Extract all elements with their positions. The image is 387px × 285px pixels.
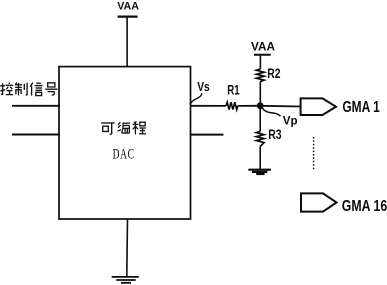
label 可 (101, 123, 114, 134)
buffer GMA1 symbol (301, 98, 336, 115)
label 号 (45, 83, 57, 95)
resistor R2 (256, 69, 264, 82)
pointer curve Vs (191, 93, 202, 104)
ground below DAC (112, 277, 139, 283)
wire control input 1 (12, 105, 60, 107)
power VAA top bar (118, 16, 138, 18)
wire control input 2 (12, 134, 60, 136)
svg-text:R3: R3 (268, 126, 282, 142)
label 制 (15, 83, 27, 96)
pointer curve Vp (262, 108, 280, 116)
label 信 (30, 83, 42, 96)
wire VAA top to DAC (126, 17, 128, 67)
label 控 (0, 82, 13, 95)
DAC block U1 (59, 67, 191, 219)
svg-text:R2: R2 (267, 66, 280, 81)
wire node to R3 (259, 106, 261, 132)
label 程 (132, 122, 146, 135)
buffer GMA16 symbol (301, 193, 337, 211)
wire node to GMA1 buffer (260, 105, 301, 108)
resistor R1 (226, 102, 238, 109)
wire stub right of DAC (191, 134, 224, 136)
svg-text:VAA: VAA (117, 0, 139, 12)
svg-text:GMA 1: GMA 1 (342, 99, 380, 116)
resistor R3 (256, 131, 264, 146)
wire DAC output Vs (190, 105, 226, 107)
ground below R3 (248, 170, 271, 174)
wire R3 to ground (259, 146, 261, 169)
wire R1 to node (238, 105, 260, 107)
svg-text:Vp: Vp (283, 114, 298, 128)
wire DAC to ground (126, 219, 129, 276)
dotted ellipsis line (313, 137, 315, 170)
svg-text:DAC: DAC (113, 147, 135, 163)
svg-text:GMA 16: GMA 16 (342, 198, 387, 215)
svg-text:VAA: VAA (251, 42, 275, 54)
power VAA right bar (254, 54, 271, 56)
wire VAA to R2 (259, 55, 261, 69)
node junction dot (257, 102, 264, 109)
svg-text:Vs: Vs (197, 79, 210, 94)
svg-text:R1: R1 (227, 83, 240, 98)
label 编 (118, 122, 130, 133)
wire R2 to node (259, 82, 261, 103)
